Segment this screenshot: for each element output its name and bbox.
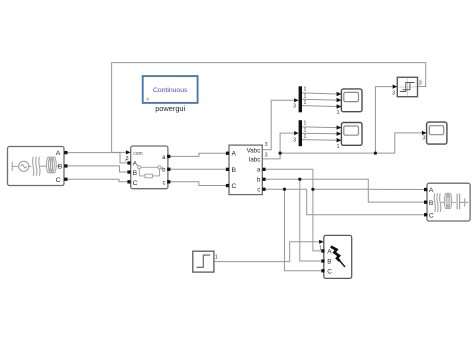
wire com feedback (relay output to breaker com) xyxy=(112,63,426,153)
wire demux2 out3 to scope2 xyxy=(302,139,337,142)
svg-text:1: 1 xyxy=(303,134,306,140)
svg-text:B: B xyxy=(232,167,237,174)
node junction relay-tap xyxy=(374,152,377,155)
fault block (three-phase fault) xyxy=(324,235,352,278)
scope1 screen xyxy=(344,92,359,101)
wire Iabc to demux2 xyxy=(262,133,294,159)
svg-text:1: 1 xyxy=(336,144,339,150)
load icon inductor strokes xyxy=(434,193,444,212)
svg-text:B: B xyxy=(58,164,63,171)
svg-text:1: 1 xyxy=(303,121,306,127)
wire Iabc branch to scope3 xyxy=(280,133,422,153)
scope2 screen xyxy=(344,126,359,135)
svg-text:3: 3 xyxy=(265,142,268,148)
svg-text:A: A xyxy=(56,150,61,157)
wire c branch down to fault C xyxy=(285,189,322,271)
svg-text:com: com xyxy=(133,151,142,157)
powergui block xyxy=(143,76,198,103)
breaker port a xyxy=(167,155,170,158)
svg-text:1: 1 xyxy=(215,254,218,260)
breaker com arrow xyxy=(126,150,131,154)
relay block xyxy=(397,77,417,96)
load icon coil xyxy=(444,193,456,208)
svg-text:A: A xyxy=(133,160,138,167)
load port C xyxy=(424,213,427,216)
svg-text:powergui: powergui xyxy=(155,104,185,113)
source block (three-phase source) xyxy=(8,147,65,186)
VI port A xyxy=(226,152,229,155)
svg-text:1: 1 xyxy=(303,100,306,106)
svg-text:Iabc: Iabc xyxy=(249,157,261,164)
svg-text:3: 3 xyxy=(422,136,425,142)
breaker port A xyxy=(127,161,130,164)
relay input arrow xyxy=(393,85,398,89)
breaker icon switch xyxy=(135,163,163,178)
wire Iabc branch to relay xyxy=(375,87,392,154)
svg-text:A: A xyxy=(232,151,237,158)
source icon sine circle xyxy=(19,161,32,171)
svg-text:1: 1 xyxy=(303,128,306,134)
svg-text:c: c xyxy=(163,181,166,187)
svg-text:3: 3 xyxy=(419,80,422,86)
node junction c-branch xyxy=(283,188,286,191)
svg-text:1: 1 xyxy=(303,94,306,100)
svg-text:A: A xyxy=(429,187,434,194)
scope3 xyxy=(427,122,447,144)
demux1 xyxy=(299,86,302,112)
fault port A xyxy=(321,249,324,252)
load port A xyxy=(424,188,427,191)
scope1 xyxy=(341,89,362,112)
svg-text:B: B xyxy=(133,170,138,177)
wire breaker b to VI B xyxy=(170,168,226,170)
wire b branch down to fault B xyxy=(300,179,322,261)
breaker port b xyxy=(167,168,170,171)
svg-text:1: 1 xyxy=(303,87,306,93)
svg-text:C: C xyxy=(133,180,138,187)
svg-text:C: C xyxy=(429,213,434,220)
scope1 arrow3 xyxy=(337,104,342,108)
scope2 arrow3 xyxy=(337,138,342,142)
scope1 arrow2 xyxy=(337,98,342,102)
svg-text:c: c xyxy=(257,188,260,194)
wire breaker c to VI C xyxy=(170,182,226,186)
VI port C xyxy=(226,184,229,187)
wire VI a down to fault A xyxy=(266,169,322,251)
wire source A to breaker A xyxy=(67,153,127,163)
load icon capacitor xyxy=(457,194,468,210)
load port B xyxy=(424,201,427,204)
svg-text:Continuous: Continuous xyxy=(153,87,188,94)
scope2 xyxy=(341,123,362,146)
node junction a-branch xyxy=(311,188,314,191)
source icon stub xyxy=(12,162,18,171)
node junction b-branch xyxy=(298,178,301,181)
scope1 arrow1 xyxy=(337,92,342,96)
svg-text:3: 3 xyxy=(293,137,296,143)
wire breaker a to VI A xyxy=(170,153,226,156)
relay axes xyxy=(399,86,417,88)
wire demux1 out1 to scope1 xyxy=(302,93,337,94)
svg-text:1: 1 xyxy=(336,110,339,116)
fault port C xyxy=(321,269,324,272)
svg-text:3: 3 xyxy=(392,90,395,96)
svg-text:C: C xyxy=(56,177,61,184)
svg-text:3: 3 xyxy=(265,152,268,158)
scope3 screen xyxy=(429,126,443,135)
breaker port B xyxy=(127,170,130,173)
svg-text:B: B xyxy=(429,200,434,207)
source port A xyxy=(64,151,67,154)
svg-text:A: A xyxy=(327,249,332,256)
demux1 input arrow xyxy=(294,98,298,102)
fault com arrow xyxy=(319,240,324,244)
wire demux1 out3 to scope1 xyxy=(302,105,337,108)
demux2 input arrow xyxy=(294,131,298,135)
source icon inductor strokes xyxy=(33,157,47,176)
wire step to fault com xyxy=(214,242,319,262)
wire source B to breaker B xyxy=(67,166,127,172)
svg-text:B: B xyxy=(327,259,331,266)
svg-text:3: 3 xyxy=(293,104,296,110)
source port C xyxy=(64,178,67,181)
wire VI c to load C xyxy=(266,189,424,215)
relay hysteresis icon xyxy=(400,83,415,92)
wire demux2 out1 to scope2 xyxy=(302,126,337,129)
svg-text:Vabc: Vabc xyxy=(247,148,261,155)
scope2 arrow2 xyxy=(337,132,342,136)
VI port b xyxy=(262,178,265,181)
scope3 arrow xyxy=(422,131,427,135)
wire VI b to load B xyxy=(266,179,424,202)
breaker port c xyxy=(167,180,170,183)
breaker block (three-phase breaker) xyxy=(131,146,168,189)
step icon xyxy=(197,255,211,267)
wire demux2 out2 to scope2 xyxy=(302,132,337,135)
svg-text:C: C xyxy=(232,183,237,190)
scope2 arrow1 xyxy=(337,125,342,129)
svg-text:C: C xyxy=(327,269,332,276)
load block (three-phase series RLC load) xyxy=(427,183,470,221)
fault lightning bolt xyxy=(331,247,340,262)
wire demux1 out2 to scope1 xyxy=(302,98,337,101)
VI port B xyxy=(226,168,229,171)
node junction Iabc-main xyxy=(279,152,282,155)
breaker port C xyxy=(127,180,130,183)
wire a branch to load A xyxy=(313,188,424,190)
VI port a xyxy=(262,168,265,171)
source port B xyxy=(64,164,67,167)
VI measurement block xyxy=(229,145,262,195)
powergui corner glyph xyxy=(146,97,149,100)
fault port B xyxy=(321,259,324,262)
source icon coil xyxy=(47,157,61,173)
demux2 xyxy=(299,120,302,146)
step block xyxy=(193,251,214,272)
wire source C to breaker C xyxy=(67,179,127,182)
VI port c xyxy=(262,188,265,191)
wire Vabc to demux1 xyxy=(262,100,294,150)
